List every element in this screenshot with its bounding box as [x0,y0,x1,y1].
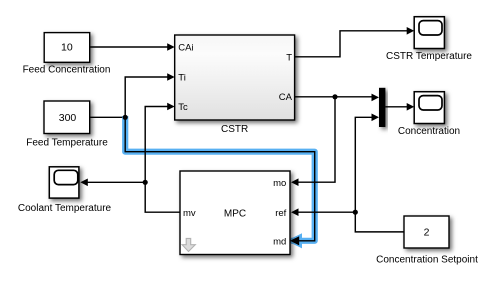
scope block CSTR Temperature [414,17,444,49]
svg-text:Coolant Temperature: Coolant Temperature [18,203,112,214]
svg-text:CA: CA [279,92,293,103]
wire (highlighted blue): junction J1 to md input of MPC [125,116,315,248]
constant block Concentration Setpoint value 2 [404,216,449,248]
junction J2 on CA wire [332,94,337,99]
wire: Feed Temperature to junction J1 [90,116,126,118]
svg-text:CSTR Temperature: CSTR Temperature [386,51,472,62]
constant block Feed Concentration value 10 [44,33,89,63]
svg-text:CAi: CAi [178,43,193,54]
junction J4 [143,180,148,185]
svg-text:md: md [273,236,286,247]
junction J3 [353,210,358,215]
junction J1 [123,115,128,120]
svg-text:2: 2 [424,227,430,239]
svg-text:Concentration Setpoint: Concentration Setpoint [376,254,478,265]
wire: T output to CSTR Temperature scope [295,27,415,57]
svg-text:ref: ref [275,208,286,219]
wire: junction J3 up to mux input 2 [355,114,379,213]
wire: Feed Concentration to CAi [90,43,175,51]
svg-text:Ti: Ti [178,73,186,84]
wire: junction J1 up to Ti [125,73,175,117]
mux block [379,88,385,127]
svg-text:Concentration: Concentration [398,126,460,137]
svg-text:Feed Concentration: Feed Concentration [23,64,111,75]
svg-text:mo: mo [273,178,286,189]
svg-text:MPC: MPC [224,208,246,219]
scope block Concentration [414,92,444,124]
svg-text:10: 10 [61,42,73,54]
wire: CA output to mux input 1 [295,94,379,102]
CSTR block [175,35,295,120]
svg-text:mv: mv [183,208,196,219]
grey update arrow icon [182,238,195,251]
wire: junction J2 down to mo input of MPC [291,97,335,186]
scope block Coolant Temperature (mirrored) [49,167,79,198]
svg-text:300: 300 [59,112,77,124]
wire: mux output to Concentration scope [385,103,414,111]
svg-text:Tc: Tc [178,102,188,113]
wire: junction J3 to ref input of MPC [291,208,355,216]
wire: junction J4 to Coolant Temperature scope [80,179,145,187]
MPC block [180,171,290,255]
svg-text:T: T [286,52,292,63]
wire: Concentration Setpoint to junction J3 [355,212,404,232]
wire: mv output of MPC to junction J4 and up to Tc [145,103,180,213]
svg-text:CSTR: CSTR [221,124,248,135]
svg-text:Feed Temperature: Feed Temperature [26,138,108,149]
constant block Feed Temperature value 300 [44,101,90,134]
